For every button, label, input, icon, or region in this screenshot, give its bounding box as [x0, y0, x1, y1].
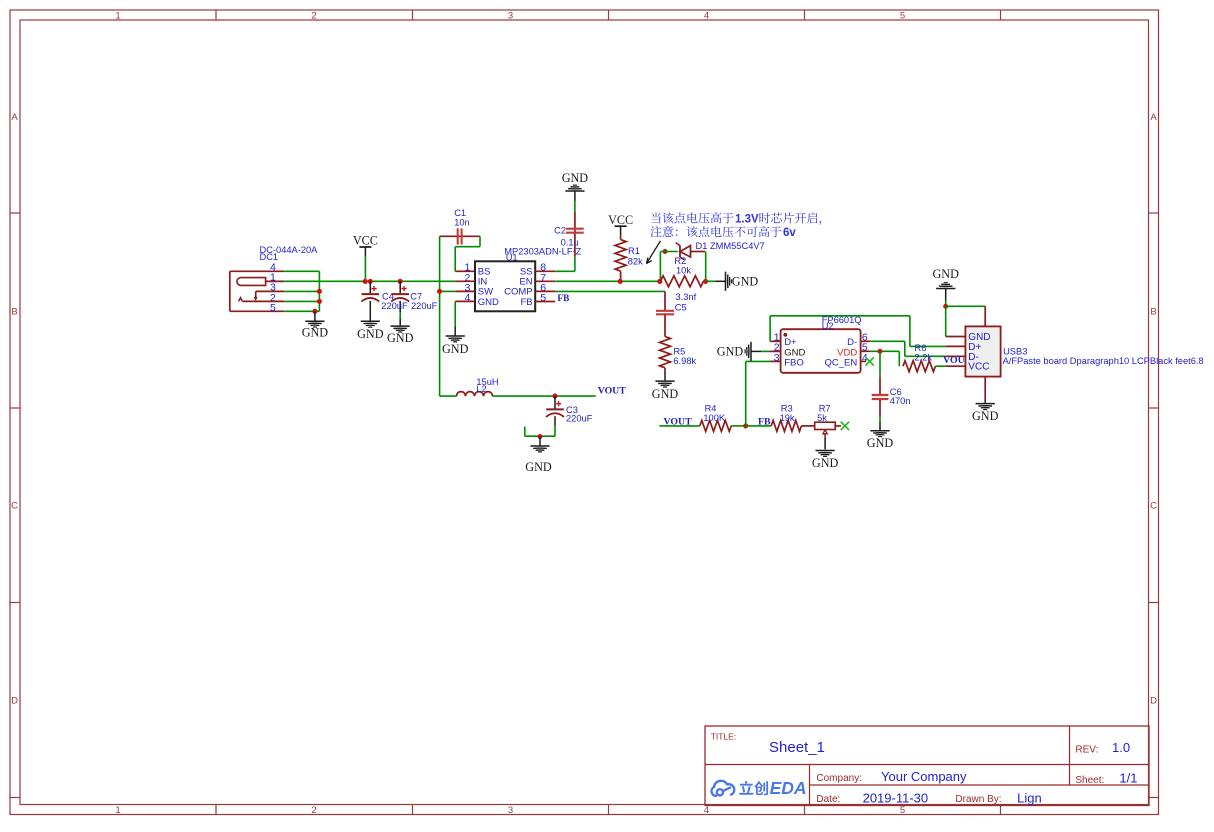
svg-text:FB: FB	[557, 294, 569, 304]
svg-text:100K: 100K	[703, 413, 726, 423]
svg-text:1: 1	[115, 10, 120, 21]
svg-text:10k: 10k	[676, 266, 691, 276]
svg-text:L2: L2	[476, 384, 486, 394]
svg-text:GND: GND	[478, 297, 499, 308]
svg-text:B: B	[1150, 307, 1156, 318]
svg-text:FBO: FBO	[784, 357, 804, 368]
svg-text:2019-11-30: 2019-11-30	[863, 790, 929, 805]
svg-text:Company:: Company:	[816, 773, 862, 784]
svg-text:REV:: REV:	[1075, 745, 1098, 756]
svg-text:VCC: VCC	[353, 233, 378, 247]
svg-text:A: A	[11, 112, 18, 123]
svg-text:R5: R5	[673, 346, 685, 356]
svg-text:GND: GND	[717, 344, 744, 358]
svg-text:EDA: EDA	[770, 778, 807, 798]
svg-text:3.3nf: 3.3nf	[676, 292, 697, 302]
svg-text:C: C	[11, 501, 18, 512]
svg-text:1: 1	[115, 805, 120, 816]
svg-text:5: 5	[270, 302, 276, 314]
svg-text:DC1: DC1	[260, 252, 279, 262]
svg-text:2.2k: 2.2k	[915, 352, 933, 362]
svg-text:USB3: USB3	[1003, 346, 1027, 356]
svg-text:C7: C7	[410, 291, 422, 301]
svg-text:Sheet:: Sheet:	[1075, 775, 1104, 786]
svg-text:5: 5	[900, 10, 905, 21]
svg-text:220uF: 220uF	[381, 301, 408, 311]
svg-text:D1 ZMM55C4V7: D1 ZMM55C4V7	[696, 241, 765, 251]
svg-text:FB: FB	[520, 297, 532, 308]
svg-text:3: 3	[774, 352, 780, 364]
svg-text:GND: GND	[867, 436, 894, 450]
svg-text:VCC: VCC	[968, 362, 989, 373]
svg-text:C5: C5	[675, 303, 687, 313]
svg-text:82k: 82k	[628, 256, 643, 266]
svg-text:B: B	[11, 307, 17, 318]
svg-text:GND: GND	[812, 456, 839, 470]
svg-text:470n: 470n	[890, 396, 911, 406]
svg-text:Your Company: Your Company	[881, 769, 967, 784]
svg-text:GND: GND	[525, 460, 552, 474]
svg-text:A/FPaste board Dparagraph10 LC: A/FPaste board Dparagraph10 LCPBlack fee…	[1003, 356, 1204, 366]
svg-text:19k: 19k	[780, 413, 795, 423]
svg-text:10n: 10n	[454, 217, 470, 227]
svg-text:1.3V: 1.3V	[735, 214, 759, 226]
svg-text:3: 3	[508, 805, 513, 816]
svg-text:4: 4	[704, 805, 709, 816]
svg-text:6.98k: 6.98k	[673, 356, 696, 366]
svg-text:U1: U1	[506, 253, 518, 263]
svg-text:3: 3	[508, 10, 513, 21]
svg-text:1.0: 1.0	[1112, 740, 1130, 755]
svg-text:5: 5	[900, 805, 905, 816]
svg-text:GND: GND	[387, 331, 414, 345]
svg-text:GND: GND	[652, 387, 679, 401]
svg-text:0.1u: 0.1u	[561, 238, 579, 248]
svg-text:C2: C2	[554, 226, 566, 236]
svg-text:GND: GND	[932, 267, 959, 281]
svg-text:U2: U2	[822, 321, 834, 331]
svg-text:VCC: VCC	[608, 213, 633, 227]
svg-text:Lign: Lign	[1017, 790, 1042, 805]
svg-text:4: 4	[704, 10, 709, 21]
svg-text:1/1: 1/1	[1119, 771, 1137, 786]
svg-text:Date:: Date:	[816, 794, 840, 805]
svg-text:D: D	[1150, 696, 1157, 707]
svg-text:5k: 5k	[817, 413, 827, 423]
svg-text:Sheet_1: Sheet_1	[769, 739, 825, 756]
svg-text:220uF: 220uF	[566, 414, 593, 424]
svg-text:GND: GND	[442, 342, 469, 356]
svg-text:2: 2	[311, 10, 316, 21]
svg-text:GND: GND	[562, 171, 589, 185]
svg-text:QC_EN: QC_EN	[824, 357, 857, 368]
svg-text:220uF: 220uF	[411, 301, 438, 311]
svg-text:GND: GND	[732, 275, 759, 289]
svg-text:R1: R1	[628, 246, 640, 256]
svg-text:GND: GND	[302, 326, 329, 340]
svg-text:GND: GND	[357, 327, 384, 341]
svg-text:2: 2	[311, 805, 316, 816]
svg-text:Drawn By:: Drawn By:	[955, 794, 1001, 805]
svg-text:A: A	[1150, 112, 1157, 123]
svg-text:6v: 6v	[783, 227, 796, 239]
svg-text:VOUT: VOUT	[598, 386, 627, 397]
svg-text:GND: GND	[972, 409, 999, 423]
svg-text:C: C	[1150, 501, 1157, 512]
svg-text:TITLE:: TITLE:	[711, 732, 737, 742]
svg-text:R2: R2	[674, 256, 686, 266]
svg-text:D: D	[11, 696, 18, 707]
